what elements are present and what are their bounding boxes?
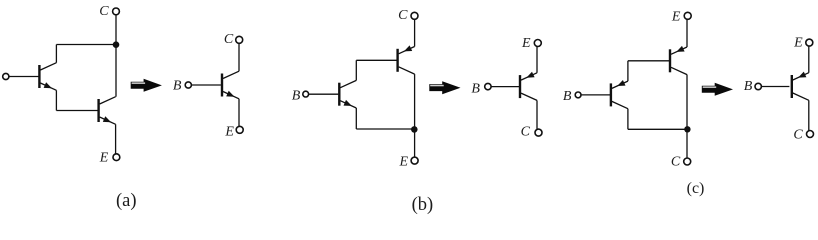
svg-text:E: E — [399, 154, 409, 169]
svg-text:C: C — [224, 32, 234, 47]
svg-text:E: E — [521, 36, 531, 51]
svg-text:C: C — [671, 154, 681, 169]
svg-text:E: E — [793, 36, 803, 51]
svg-text:B: B — [471, 82, 480, 97]
svg-text:C: C — [521, 125, 531, 140]
svg-text:C: C — [398, 8, 408, 23]
svg-text:(b): (b) — [412, 195, 434, 215]
svg-text:E: E — [99, 151, 109, 166]
svg-text:B: B — [744, 79, 753, 94]
svg-text:B: B — [292, 89, 301, 104]
svg-text:(a): (a) — [116, 191, 137, 211]
svg-text:B: B — [173, 79, 182, 94]
svg-text:E: E — [224, 124, 234, 139]
svg-text:B: B — [563, 89, 572, 104]
svg-text:C: C — [793, 128, 803, 143]
svg-text:C: C — [99, 4, 109, 19]
svg-text:(c): (c) — [687, 180, 705, 197]
svg-text:E: E — [671, 10, 681, 25]
